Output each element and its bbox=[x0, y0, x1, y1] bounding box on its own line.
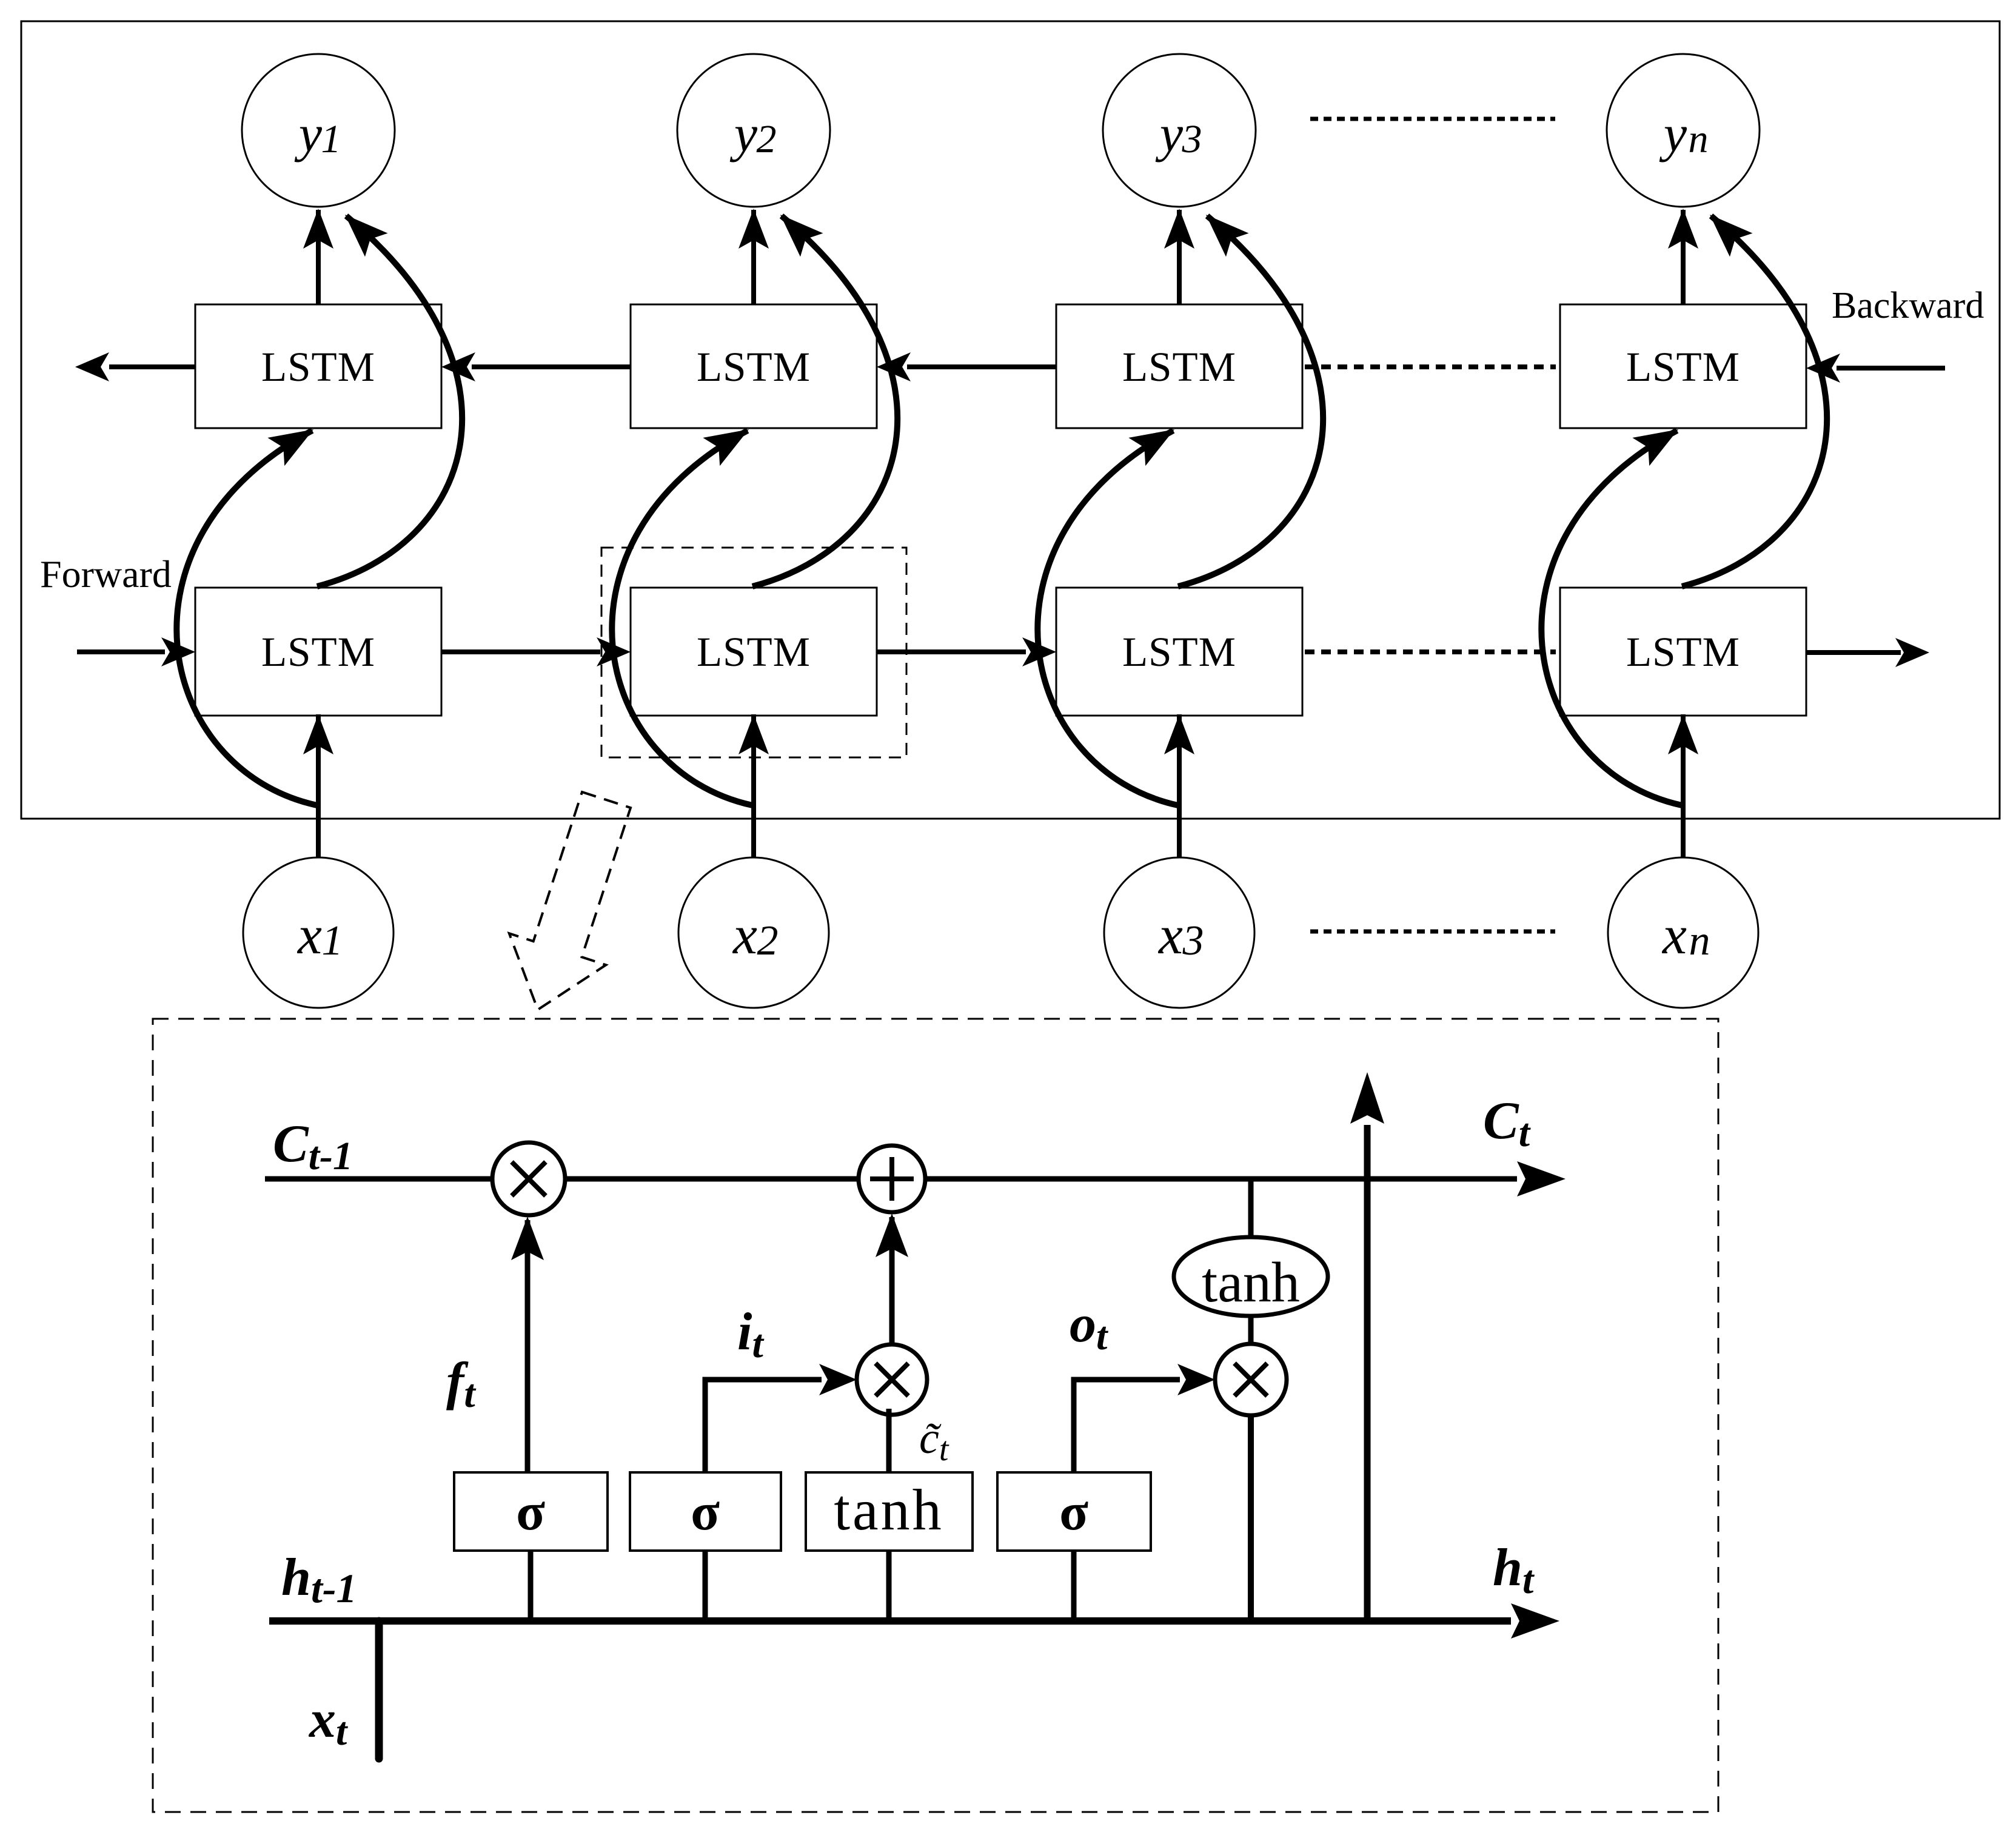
node x1 input circle bbox=[243, 857, 393, 1008]
node y3 output circle bbox=[1103, 54, 1256, 207]
dotted ellipsis between x3 and xn bbox=[1310, 930, 1555, 934]
svg-text:y: y bbox=[1155, 104, 1184, 163]
node y1 output circle bbox=[242, 54, 395, 207]
operator multiply (input gate x candidate) bbox=[857, 1344, 927, 1415]
outer frame box of BiLSTM network bbox=[21, 21, 2000, 819]
svg-text:x: x bbox=[732, 905, 757, 965]
node x2 input circle bbox=[678, 857, 829, 1008]
backward LSTM cell 4 bbox=[1560, 304, 1806, 428]
svg-text:LSTM: LSTM bbox=[1122, 629, 1236, 675]
backward LSTM cell 2 bbox=[631, 304, 877, 428]
wire candidate c~ from tanh box to multiply bbox=[886, 1409, 892, 1472]
forward LSTM cell 3 bbox=[1056, 588, 1302, 716]
svg-text:tanh: tanh bbox=[1202, 1251, 1300, 1314]
wire multiply to plus bbox=[889, 1217, 895, 1344]
wire o_t elbow from sigma3 to multiply bbox=[1074, 1380, 1180, 1472]
svg-text:y: y bbox=[1659, 104, 1687, 163]
svg-text:LSTM: LSTM bbox=[697, 629, 811, 675]
wire x3 to forward LSTM 3 bbox=[1177, 714, 1182, 857]
svg-text:y: y bbox=[294, 104, 323, 163]
wire tanh ellipse to multiply bbox=[1248, 1316, 1254, 1344]
gate box tanh (candidate) bbox=[806, 1472, 973, 1551]
wire backward LSTM 2 to y2 bbox=[751, 210, 756, 304]
wire arc forward LSTM 2 to y2 bbox=[752, 216, 897, 586]
node y2 output circle bbox=[677, 54, 830, 207]
svg-text:LSTM: LSTM bbox=[1122, 344, 1236, 390]
svg-text:LSTM: LSTM bbox=[1626, 344, 1740, 390]
operator multiply (output gate) bbox=[1215, 1344, 1287, 1415]
wire h tap to forget gate bbox=[528, 1551, 534, 1621]
wire backward LSTM 3 to y3 bbox=[1177, 210, 1182, 304]
wire backward LSTM2 to LSTM1 bbox=[472, 364, 631, 369]
backward LSTM cell 1 bbox=[195, 304, 441, 428]
wire forward LSTM1 to LSTM2 bbox=[441, 649, 600, 654]
wire x1 to forward LSTM 1 bbox=[316, 714, 321, 857]
forward LSTM cell 2 bbox=[631, 588, 877, 716]
dotted ellipsis between y3 and yn bbox=[1310, 117, 1555, 121]
wire x2 to forward LSTM 2 bbox=[751, 714, 756, 857]
wire forward LSTM2 to LSTM3 bbox=[877, 649, 1026, 654]
svg-text:1: 1 bbox=[321, 117, 341, 161]
svg-text:y: y bbox=[729, 104, 758, 163]
svg-text:LSTM: LSTM bbox=[261, 629, 375, 675]
svg-text:σ: σ bbox=[1059, 1483, 1088, 1542]
activation tanh ellipse bbox=[1174, 1237, 1328, 1316]
wire backward input arrow (rightmost) bbox=[1837, 366, 1945, 371]
wire forward input arrow (leftmost) bbox=[77, 649, 165, 654]
svg-text:σ: σ bbox=[691, 1483, 720, 1542]
svg-text:σ: σ bbox=[516, 1483, 545, 1542]
svg-text:3: 3 bbox=[1182, 918, 1204, 964]
wire C cell-state line bbox=[265, 1176, 1517, 1182]
node yn output circle bbox=[1607, 54, 1760, 207]
wire backward LSTM3 to LSTM2 bbox=[907, 364, 1056, 369]
wire backward LSTM 1 to y1 bbox=[316, 210, 321, 304]
wire arc x2 to backward LSTM 2 bbox=[612, 431, 752, 805]
wire h tap to candidate gate bbox=[886, 1551, 892, 1621]
svg-text:3: 3 bbox=[1182, 117, 1202, 161]
wire backward output arrow (leftmost) bbox=[109, 364, 195, 369]
wire h tap to output gate bbox=[1071, 1551, 1077, 1621]
node x3 input circle bbox=[1104, 857, 1254, 1008]
svg-text:x: x bbox=[296, 905, 322, 965]
svg-text:x: x bbox=[1157, 905, 1183, 965]
wire dotted forward LSTM3 to LSTM4 bbox=[1305, 649, 1556, 654]
wire h_t up output arrow bbox=[1364, 1125, 1371, 1621]
wire i_t elbow from sigma2 to multiply bbox=[705, 1380, 822, 1472]
wire backward LSTM 4 to yn bbox=[1681, 210, 1686, 304]
wire arc forward LSTM 3 to y3 bbox=[1178, 216, 1323, 586]
svg-text:2: 2 bbox=[757, 918, 779, 964]
forward LSTM cell 4 bbox=[1560, 588, 1806, 716]
wire x_t input stub bbox=[375, 1621, 383, 1759]
svg-text:1: 1 bbox=[322, 918, 343, 964]
dashed hollow zoom-in arrow bbox=[509, 792, 631, 1010]
gate box sigma (output gate) bbox=[997, 1472, 1151, 1551]
svg-text:2: 2 bbox=[757, 117, 777, 161]
wire dotted backward LSTM4 to LSTM3 bbox=[1305, 364, 1556, 369]
svg-text:tanh: tanh bbox=[834, 1477, 943, 1542]
wire f_t from sigma1 to multiply bbox=[525, 1220, 531, 1472]
backward LSTM cell 3 bbox=[1056, 304, 1302, 428]
operator plus on C line bbox=[859, 1146, 925, 1212]
wire xn to forward LSTM 4 bbox=[1681, 714, 1686, 857]
wire C line down to tanh ellipse bbox=[1248, 1179, 1254, 1238]
svg-text:n: n bbox=[1689, 918, 1710, 964]
operator multiply on C line (forget) bbox=[492, 1142, 565, 1215]
wire h tap to input gate bbox=[703, 1551, 708, 1621]
wire arc forward LSTM 4 to yn bbox=[1682, 216, 1827, 586]
gate box sigma (input gate) bbox=[630, 1472, 781, 1551]
svg-text:LSTM: LSTM bbox=[697, 344, 811, 390]
wire arc forward LSTM 1 to y1 bbox=[317, 216, 462, 586]
wire h hidden-state line bbox=[269, 1617, 1511, 1625]
svg-text:LSTM: LSTM bbox=[1626, 629, 1740, 675]
wire arc xn to backward LSTM 4 bbox=[1541, 431, 1682, 805]
svg-text:x: x bbox=[1661, 905, 1687, 965]
dashed highlight box around forward LSTM 2 bbox=[601, 548, 906, 757]
svg-text:n: n bbox=[1689, 117, 1709, 161]
svg-text:Forward: Forward bbox=[40, 552, 172, 596]
dashed box of LSTM cell detail bbox=[153, 1019, 1718, 1812]
wire arc x1 to backward LSTM 1 bbox=[176, 431, 317, 805]
gate box sigma (forget gate) bbox=[454, 1472, 608, 1551]
svg-text:Backward: Backward bbox=[1832, 285, 1984, 326]
wire forward output arrow (rightmost) bbox=[1806, 650, 1901, 655]
node xn input circle bbox=[1608, 857, 1758, 1008]
wire output multiply down to h line bbox=[1248, 1415, 1254, 1621]
svg-text:LSTM: LSTM bbox=[261, 344, 375, 390]
wire arc x3 to backward LSTM 3 bbox=[1037, 431, 1178, 805]
forward LSTM cell 1 bbox=[195, 588, 441, 716]
